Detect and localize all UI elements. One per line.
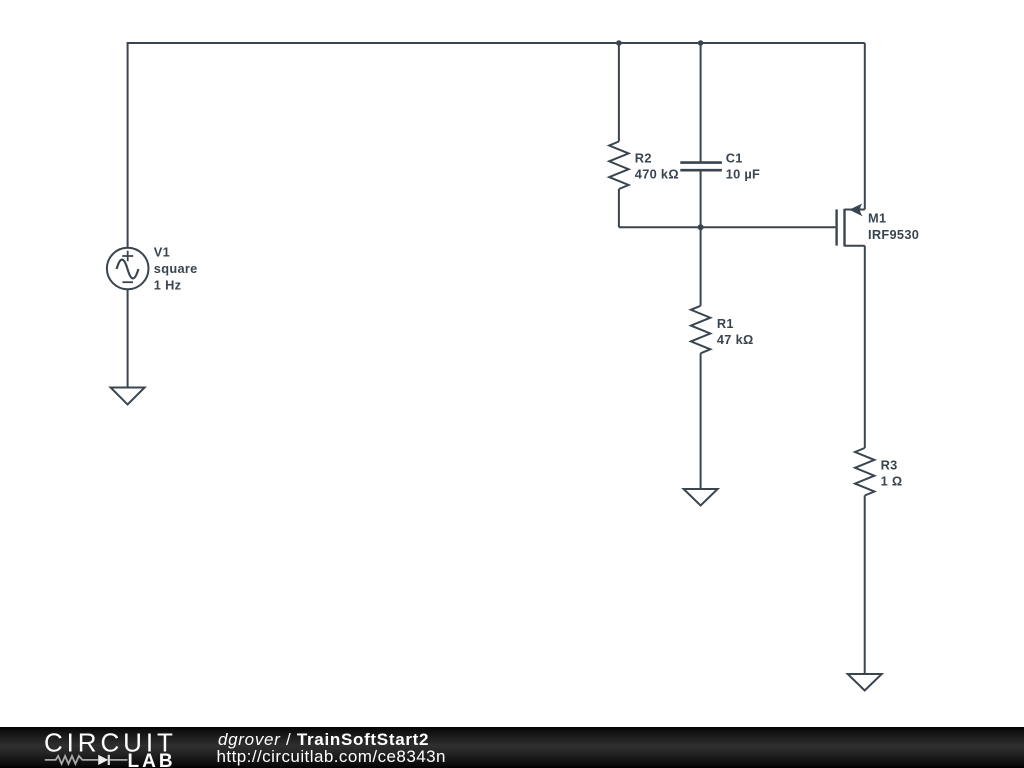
ground (R1) <box>684 489 718 506</box>
junction: R2 branch on top bus <box>616 40 622 46</box>
transistor M1 channel bar <box>843 209 845 247</box>
footer bar <box>0 727 1024 768</box>
CircuitLab logo: resistor-diode glyph <box>45 755 128 765</box>
wire: M1 drain down to R3 <box>864 246 866 448</box>
wire: top bus from V1 branch to M1 source branch <box>128 42 865 44</box>
wire: gate net horizontal to M1 gate <box>619 226 836 228</box>
wire: C1 top lead from top bus <box>700 43 702 162</box>
wire: V1 bottom lead to ground <box>127 289 129 387</box>
wire: R3 bottom lead to ground <box>864 496 866 675</box>
footer url <box>217 747 446 767</box>
wire: M1 source up to top bus <box>864 43 866 210</box>
transistor M1 drain lead <box>845 245 865 247</box>
junction: gate net / R1 node <box>698 224 704 230</box>
wire: R2 bottom lead down to gate net <box>618 189 620 227</box>
wire: V1 top lead (left vertical) <box>127 42 129 248</box>
transistor M1 source lead with PMOS arrow <box>845 203 865 216</box>
voltage source V1 <box>107 248 149 290</box>
capacitor C1 <box>680 163 722 171</box>
svg-text:LAB: LAB <box>128 751 176 768</box>
wire: C1 bottom lead to gate net <box>700 171 702 228</box>
junction: C1 branch on top bus <box>698 40 704 46</box>
ground (V1) <box>111 388 145 405</box>
footer title: dgrover / TrainSoftStart2 <box>218 730 429 750</box>
resistor R2 <box>609 142 628 190</box>
resistor R1 <box>691 306 710 354</box>
ground (R3) <box>848 674 882 691</box>
wire: gate net down to R1 <box>700 227 702 305</box>
wire: R2 top lead from top bus <box>618 43 620 142</box>
wire: R1 bottom lead to ground <box>700 353 702 489</box>
transistor M1 gate bar <box>835 209 837 245</box>
resistor R3 <box>855 448 874 496</box>
